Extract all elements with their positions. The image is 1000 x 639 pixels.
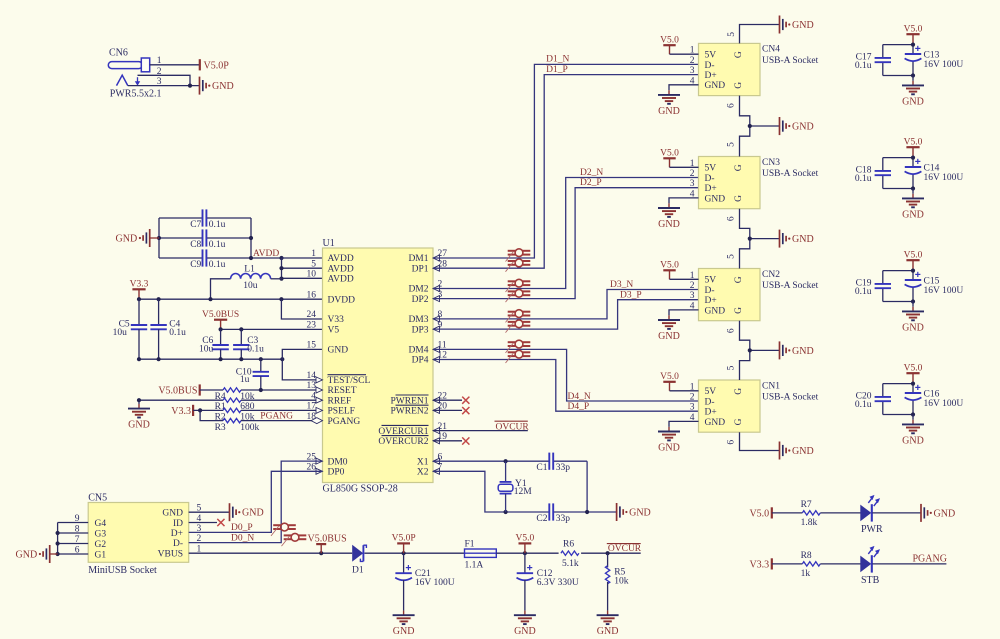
ferrite bead on D0_P: [271, 523, 296, 536]
capacitor C5 10u: [113, 299, 148, 359]
capacitor C3 0.1u: [233, 329, 264, 359]
capacitor C19 0.1u: [855, 279, 891, 297]
ground below C13: [902, 76, 924, 108]
ferrite bead on DM3: [506, 310, 531, 323]
U1 pin 2 DM2: [408, 280, 442, 295]
svg-text:16V 100U: 16V 100U: [924, 286, 964, 296]
no-connect PWREN1: [433, 397, 469, 404]
wire PWR LED to ground: [872, 512, 921, 514]
svg-text:2: 2: [690, 393, 695, 403]
svg-text:D3_P: D3_P: [620, 290, 642, 300]
svg-text:D2_P: D2_P: [580, 178, 602, 188]
U1 pin 5 AVDD: [311, 259, 354, 274]
svg-text:R7: R7: [801, 500, 812, 510]
svg-text:DM2: DM2: [408, 285, 428, 295]
svg-text:6: 6: [727, 328, 737, 333]
svg-text:OVCUR: OVCUR: [608, 544, 642, 554]
wire D2_P: [433, 178, 699, 299]
ground between CN4 and CN3: [780, 117, 814, 135]
wire CN4 pin 6 jog to CN3 pin 5: [727, 96, 780, 157]
svg-text:0.1u: 0.1u: [855, 400, 872, 410]
svg-text:D4_N: D4_N: [568, 392, 591, 402]
svg-text:3: 3: [690, 179, 695, 189]
svg-text:33p: 33p: [556, 514, 571, 524]
capacitor C1 33p: [536, 453, 570, 474]
U1 pin 26 DP0: [307, 463, 345, 478]
connector CN5 MiniUSB Socket: [75, 492, 202, 576]
diode D1 schottky: [352, 545, 366, 576]
resistor R5 10k: [605, 553, 628, 610]
svg-text:4: 4: [311, 391, 316, 401]
svg-text:GND: GND: [116, 234, 138, 245]
connector CN2 USB-A Socket: [690, 269, 819, 321]
U1 pin 15 GND: [307, 341, 349, 356]
svg-text:CN3: CN3: [762, 158, 780, 168]
U1 pin 27 DM1: [408, 249, 447, 264]
svg-text:16V 100U: 16V 100U: [924, 399, 964, 409]
capacitor C9: [190, 249, 225, 269]
svg-text:V3.3: V3.3: [130, 280, 149, 290]
svg-text:G: G: [734, 51, 744, 58]
capacitor C17 0.1u: [855, 53, 891, 71]
wire OVERCUR1 to OVCUR: [433, 421, 529, 432]
svg-text:10u: 10u: [113, 328, 128, 338]
svg-text:GND: GND: [792, 446, 814, 457]
svg-text:PWR: PWR: [861, 524, 883, 535]
svg-text:USB-A Socket: USB-A Socket: [762, 393, 819, 403]
svg-text:GND: GND: [162, 509, 183, 519]
svg-text:PWREN2: PWREN2: [391, 407, 429, 417]
svg-text:10k: 10k: [614, 576, 629, 586]
wire D0_N net: [189, 461, 323, 543]
svg-text:D+: D+: [705, 184, 717, 194]
U1 pin 28 DP1: [412, 259, 448, 274]
U1 pin 6 X1: [417, 452, 443, 467]
svg-text:GND: GND: [242, 508, 264, 519]
svg-text:OVCUR: OVCUR: [496, 422, 530, 432]
no-connect ID: [189, 519, 225, 526]
svg-text:GND: GND: [16, 550, 38, 561]
svg-text:GND: GND: [658, 106, 680, 117]
svg-text:GND: GND: [792, 346, 814, 357]
resistor R8 1k: [772, 551, 861, 579]
svg-text:5: 5: [727, 142, 737, 147]
svg-text:R3: R3: [215, 423, 226, 433]
U1 pin 7 X2: [417, 463, 443, 478]
svg-text:GND: GND: [902, 322, 924, 333]
svg-text:G2: G2: [95, 540, 107, 550]
svg-text:X2: X2: [417, 468, 429, 478]
U1 pin 12 DP4: [412, 351, 448, 366]
power V5.0BUS top: [202, 310, 239, 330]
svg-text:0.1u: 0.1u: [855, 287, 872, 297]
svg-text:GND: GND: [514, 626, 536, 637]
svg-text:DM1: DM1: [408, 254, 428, 264]
svg-text:GND: GND: [705, 418, 726, 428]
wire CN4 pin 5 to ground: [727, 25, 780, 44]
svg-text:GND: GND: [328, 346, 349, 356]
ferrite bead on DP4: [506, 350, 531, 363]
svg-text:G: G: [734, 195, 744, 202]
svg-text:D1_P: D1_P: [546, 65, 568, 75]
wire D3_N: [433, 280, 699, 319]
wire DVDD rail V3.3: [137, 297, 323, 301]
power V5.0BUS at VBUS: [308, 534, 347, 554]
wire D1 to fuse: [365, 551, 465, 555]
svg-text:G: G: [734, 276, 744, 283]
svg-text:17: 17: [307, 402, 317, 412]
ground between CN2 and CN1: [780, 341, 814, 359]
LED STB: [860, 546, 880, 586]
wire AVDD filter loop: [157, 218, 282, 260]
svg-text:X1: X1: [417, 457, 429, 467]
CN6 pin 2 wire: [138, 67, 191, 86]
crystal Y1 12M: [498, 461, 532, 512]
svg-text:DP3: DP3: [412, 325, 429, 335]
wire CN3 pin 1: [670, 166, 699, 168]
svg-text:D-: D-: [173, 539, 183, 549]
wire D1_N: [433, 55, 699, 258]
wire CN1 pin 4 to ground: [669, 421, 699, 427]
svg-text:12M: 12M: [514, 487, 533, 497]
resistor R6 5.1k: [561, 540, 641, 570]
svg-text:16V 100U: 16V 100U: [415, 578, 455, 588]
svg-text:AVDD: AVDD: [328, 275, 354, 285]
svg-text:D-: D-: [705, 174, 715, 184]
svg-text:V5.0: V5.0: [660, 149, 679, 159]
svg-text:MiniUSB Socket: MiniUSB Socket: [88, 565, 157, 576]
svg-text:GND: GND: [629, 508, 651, 519]
svg-text:C9: C9: [190, 260, 201, 270]
svg-text:5V: 5V: [705, 387, 717, 397]
svg-text:CN6: CN6: [109, 47, 128, 58]
svg-text:AVDD: AVDD: [328, 264, 354, 274]
IC U1 GL850G body: [323, 238, 434, 495]
wire D3_P: [433, 290, 699, 329]
no-connect OVERCUR2: [433, 437, 469, 444]
svg-text:GND: GND: [705, 194, 726, 204]
power V5.0 at C12: [516, 534, 535, 554]
svg-text:2: 2: [690, 169, 695, 179]
svg-text:G3: G3: [95, 529, 107, 539]
capacitor C18 0.1u: [855, 166, 891, 184]
ferrite bead on DP3: [506, 320, 531, 333]
wire D2_N: [433, 168, 699, 289]
node OVCUR: [607, 544, 642, 554]
svg-text:D1: D1: [352, 565, 364, 575]
U1 pin 18 PGANG: [307, 412, 361, 427]
svg-text:6: 6: [727, 440, 737, 445]
svg-text:V5: V5: [328, 326, 340, 336]
svg-text:U1: U1: [323, 238, 335, 249]
wire X1 net: [433, 459, 587, 512]
ferrite bead on DM2: [506, 279, 531, 292]
capacitor C15 16V 100U: [905, 272, 964, 296]
resistor R7 1.8k: [772, 500, 861, 528]
svg-text:F1: F1: [465, 539, 475, 549]
svg-text:5: 5: [311, 259, 316, 269]
svg-text:GND: GND: [792, 122, 814, 133]
svg-text:GND: GND: [597, 626, 619, 637]
svg-text:5V: 5V: [705, 51, 717, 61]
wire C17 C13 loop: [883, 43, 915, 78]
U1 pin 19 OVERCUR2: [378, 432, 447, 447]
svg-text:V33: V33: [328, 315, 345, 325]
svg-text:6: 6: [727, 103, 737, 108]
svg-text:OVERCUR2: OVERCUR2: [378, 437, 428, 447]
wire CN5 ground pins tie: [50, 523, 88, 557]
svg-text:V5.0: V5.0: [904, 250, 923, 260]
inductor L1 10u: [211, 265, 282, 300]
svg-text:100k: 100k: [240, 423, 259, 433]
svg-text:PGANG: PGANG: [260, 412, 293, 422]
ground below CN2: [658, 315, 680, 342]
connector CN6 PWR5.5x2.1: [108, 47, 161, 99]
svg-text:RESET: RESET: [328, 386, 357, 396]
U1 pin 13 RESET: [307, 381, 357, 396]
svg-text:L1: L1: [244, 265, 255, 275]
svg-text:CN5: CN5: [88, 492, 107, 503]
U1 pin 11 DM4: [408, 341, 446, 356]
svg-text:R6: R6: [563, 540, 574, 550]
svg-text:10u: 10u: [199, 345, 214, 355]
svg-text:16V 100U: 16V 100U: [924, 60, 964, 70]
svg-text:5: 5: [727, 365, 737, 370]
U1 pin 24 V33: [307, 310, 345, 325]
capacitor C7: [190, 209, 225, 229]
power V5.0 at CN3 pin 1: [660, 149, 679, 168]
U1 pin 16 DVDD: [307, 290, 356, 305]
ground below C14: [902, 189, 924, 221]
svg-text:GND: GND: [792, 20, 814, 31]
power V5.0 at C18/C14: [904, 137, 923, 157]
ground crystal: [617, 503, 651, 521]
svg-text:3: 3: [157, 77, 162, 87]
svg-text:AVDD: AVDD: [328, 254, 354, 264]
resistor R1 680: [139, 398, 323, 412]
capacitor C8: [190, 229, 225, 249]
svg-text:TEST/SCL: TEST/SCL: [328, 376, 371, 386]
svg-text:USB-A Socket: USB-A Socket: [762, 169, 819, 179]
svg-text:ID: ID: [173, 519, 183, 529]
ground bottom right: [780, 442, 814, 460]
svg-text:V5.0: V5.0: [904, 137, 923, 147]
U1 pin 10 AVDD: [307, 270, 354, 285]
svg-text:3: 3: [690, 291, 695, 301]
power port V5.0BUS at R4: [158, 384, 199, 396]
svg-text:GND: GND: [658, 442, 680, 453]
svg-text:2: 2: [690, 56, 695, 66]
svg-text:CN2: CN2: [762, 270, 780, 280]
ground at C8: [116, 229, 159, 247]
wire CN1 pin 1: [670, 390, 699, 392]
svg-text:GL850G SSOP-28: GL850G SSOP-28: [323, 484, 398, 495]
svg-text:GND: GND: [705, 306, 726, 316]
U1 pin 21 OVERCUR1: [378, 422, 447, 437]
wire V5 pin 23: [219, 327, 323, 331]
svg-text:USB-A Socket: USB-A Socket: [762, 56, 819, 66]
svg-text:GND: GND: [705, 81, 726, 91]
U1 pin 17 PSELF: [307, 402, 355, 417]
capacitor C10 1u: [236, 359, 269, 390]
wire X2 net: [433, 471, 616, 514]
svg-text:PGANG: PGANG: [913, 553, 947, 564]
svg-text:GND: GND: [658, 331, 680, 342]
svg-text:3: 3: [690, 403, 695, 413]
wire CN4 pin 1: [670, 53, 699, 55]
svg-text:G: G: [734, 82, 744, 89]
svg-text:1k: 1k: [801, 569, 811, 579]
svg-text:6.3V 330U: 6.3V 330U: [537, 578, 579, 588]
CN6 pin 1 wire to V5.0P: [150, 56, 200, 66]
svg-text:PSELF: PSELF: [328, 407, 355, 417]
svg-text:DM0: DM0: [328, 457, 348, 467]
svg-text:D0_N: D0_N: [231, 533, 254, 543]
connector CN4 USB-A Socket: [690, 43, 819, 95]
U1 pin 8 DM3: [408, 310, 442, 325]
LED PWR: [860, 495, 883, 535]
svg-text:5.1k: 5.1k: [562, 559, 579, 569]
capacitor C12 6.3V 330U: [517, 553, 579, 610]
wire C20 C16 loop: [883, 382, 915, 417]
svg-text:33p: 33p: [556, 463, 571, 473]
svg-text:D-: D-: [705, 397, 715, 407]
power port V5.0 at R7: [749, 507, 771, 519]
svg-text:0.1u: 0.1u: [169, 328, 186, 338]
svg-text:3: 3: [690, 66, 695, 76]
svg-text:G: G: [734, 418, 744, 425]
svg-text:V5.0: V5.0: [749, 508, 769, 519]
svg-text:G: G: [734, 307, 744, 314]
U1 pin 14 TEST/SCL: [307, 371, 371, 386]
ground below C21: [393, 611, 415, 638]
svg-text:C8: C8: [190, 240, 201, 250]
svg-text:6: 6: [727, 216, 737, 221]
wire CN2 pin 4 to ground: [669, 310, 699, 316]
ground CN5 pin5: [230, 503, 264, 521]
U1 pin 3 DP2: [412, 290, 443, 305]
svg-text:0.1u: 0.1u: [247, 345, 264, 355]
svg-text:CN4: CN4: [762, 45, 780, 55]
svg-text:USB-A Socket: USB-A Socket: [762, 281, 819, 291]
svg-text:V5.0: V5.0: [904, 363, 923, 373]
wire fuse to R6: [496, 551, 558, 555]
svg-text:D+: D+: [705, 296, 717, 306]
wire V33 pin 24: [281, 299, 322, 319]
svg-text:CN1: CN1: [762, 381, 780, 391]
svg-text:RREF: RREF: [328, 396, 352, 406]
ground PWR LED: [921, 504, 955, 522]
svg-text:G: G: [734, 164, 744, 171]
svg-text:5: 5: [727, 254, 737, 259]
svg-text:0.1u: 0.1u: [855, 61, 872, 71]
svg-text:0.1u: 0.1u: [855, 174, 872, 184]
wire GND pin 15: [282, 349, 322, 359]
no-connect PWREN2: [433, 407, 469, 414]
svg-text:R8: R8: [801, 551, 812, 561]
svg-text:10u: 10u: [243, 281, 257, 291]
wire D4_P: [433, 360, 699, 413]
wire C18 C14 loop: [883, 156, 915, 191]
wire CN3 pin 6 jog to CN2 pin 5: [727, 209, 780, 269]
svg-text:V5.0: V5.0: [660, 35, 679, 45]
U1 pin 25 DM0: [307, 452, 348, 467]
svg-text:1.8k: 1.8k: [801, 518, 818, 528]
svg-text:PGANG: PGANG: [328, 417, 361, 427]
svg-text:1: 1: [157, 56, 162, 66]
svg-text:D-: D-: [705, 61, 715, 71]
power V5.0 at CN4 pin 1: [660, 35, 679, 54]
svg-text:V5.0BUS: V5.0BUS: [158, 386, 197, 397]
ground between CN3 and CN2: [780, 230, 814, 248]
svg-text:10: 10: [307, 270, 317, 280]
ground below C12: [514, 611, 536, 638]
ferrite bead on DM1: [506, 249, 531, 262]
svg-text:0.1u: 0.1u: [209, 220, 226, 230]
capacitor C16 16V 100U: [905, 385, 964, 409]
power V5.0 at C19/C15: [904, 250, 923, 270]
svg-text:DVDD: DVDD: [328, 295, 356, 305]
svg-text:DP1: DP1: [412, 264, 429, 274]
power V5.0 at CN2 pin 1: [660, 261, 679, 280]
junction R1/GND: [137, 398, 141, 402]
svg-text:DP2: DP2: [412, 295, 429, 305]
svg-text:PWR5.5x2.1: PWR5.5x2.1: [110, 89, 162, 100]
resistor R3 100k: [200, 410, 322, 432]
svg-text:1: 1: [311, 249, 316, 259]
ground CN5 left: [16, 545, 50, 563]
svg-text:D+: D+: [171, 529, 183, 539]
wire TEST/SCL pin 14: [282, 359, 322, 380]
svg-text:D2_N: D2_N: [580, 168, 603, 178]
svg-text:GND: GND: [902, 96, 924, 107]
capacitor C2 33p: [536, 503, 570, 524]
svg-text:C7: C7: [190, 220, 201, 230]
ground CN6: [200, 77, 234, 95]
svg-text:GND: GND: [393, 626, 415, 637]
ferrite bead on D0_N: [282, 533, 307, 546]
capacitor C14 16V 100U: [905, 159, 964, 183]
svg-text:GND: GND: [792, 234, 814, 245]
wire STB LED to PGANG: [872, 553, 947, 564]
svg-text:5V: 5V: [705, 276, 717, 286]
wire CN1 pin 6 to ground: [727, 432, 780, 450]
ground below CN1: [658, 427, 680, 454]
wire GND rail: [137, 357, 285, 361]
svg-text:0.1u: 0.1u: [209, 260, 226, 270]
svg-text:16V 100U: 16V 100U: [924, 173, 964, 183]
fuse F1 1.1A: [465, 539, 497, 570]
ground top right: [780, 16, 814, 34]
svg-text:16: 16: [307, 290, 317, 300]
svg-text:2: 2: [690, 281, 695, 291]
wire CN3 pin 4 to ground: [669, 198, 699, 204]
svg-text:0.1u: 0.1u: [209, 240, 226, 250]
svg-text:G4: G4: [95, 519, 107, 529]
svg-text:DM3: DM3: [408, 315, 428, 325]
U1 pin 1 AVDD: [311, 249, 354, 264]
power V5.0 at CN1 pin 1: [660, 372, 679, 391]
svg-text:C2: C2: [536, 514, 547, 524]
svg-text:GND: GND: [934, 508, 956, 519]
svg-text:GND: GND: [128, 420, 150, 431]
svg-text:V5.0: V5.0: [516, 534, 535, 544]
svg-text:D+: D+: [705, 71, 717, 81]
wire CN5 pin 5 GND: [189, 511, 230, 513]
svg-text:G: G: [734, 388, 744, 395]
capacitor C21 16V 100U: [395, 553, 455, 610]
svg-text:2: 2: [157, 67, 162, 77]
